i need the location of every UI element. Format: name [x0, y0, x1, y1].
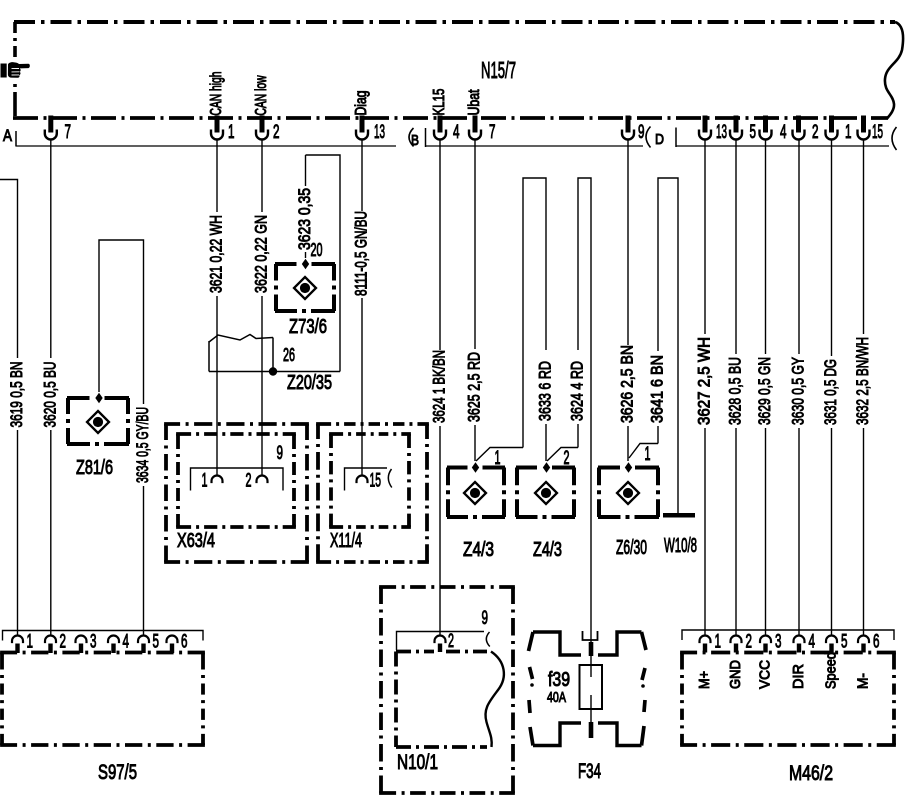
svg-text:3622 0,22 GN: 3622 0,22 GN: [252, 215, 271, 293]
svg-text:Z4/3: Z4/3: [463, 539, 494, 561]
pin 1 of S97/5: [12, 636, 23, 644]
svg-text:6: 6: [181, 632, 188, 653]
control unit N10/1 inner box top edge: [396, 650, 434, 654]
connector group A boundary line: [16, 145, 396, 147]
pin 2 cup of X63/4: [257, 476, 268, 484]
svg-text:Z81/6: Z81/6: [76, 457, 113, 479]
wire 3628 0,5 BU: [735, 140, 737, 354]
bracket paren of N10/1: [486, 632, 489, 647]
wire 3629 0,5 GN: [765, 140, 767, 354]
fuse top cup: [583, 631, 598, 640]
connector pin 15 on N15/7 (plain): [861, 116, 866, 133]
wire 3632 2,5 BN/WH: [863, 140, 865, 334]
solder joint Z4/3-2 pin diamond: [543, 462, 550, 472]
svg-text:Ubat: Ubat: [466, 89, 483, 115]
svg-text:2: 2: [448, 631, 454, 652]
svg-text:3619 0,5 BN: 3619 0,5 BN: [7, 362, 26, 428]
solder point Z81/6 symbol: [87, 411, 109, 433]
connector group D tick: [675, 128, 677, 148]
svg-text:5: 5: [153, 632, 160, 653]
svg-text:F34: F34: [578, 760, 601, 783]
solder joint Z4/3-2 symbol: [535, 482, 557, 504]
solder point Z81/6 box: [67, 396, 129, 400]
connector pin 4 on N15/7 (plain): [763, 116, 768, 133]
wire Z73/6 riser to junction: [306, 155, 341, 372]
connector group B boundary line: [426, 145, 644, 147]
svg-text:1: 1: [845, 122, 852, 143]
svg-text:7: 7: [65, 122, 72, 143]
fuse box F34 outline left zigzag: [529, 632, 534, 651]
wire loop Z6/30 pin1 to W10/8: [658, 178, 678, 513]
connector pin 4 on N15/7 (KL15): [438, 116, 443, 133]
svg-text:W10/8: W10/8: [664, 535, 697, 557]
svg-text:6: 6: [873, 632, 880, 653]
wire 3634 0,5 GY/BU: [143, 486, 145, 636]
control unit N15/7 box bottom edge: [13, 116, 888, 120]
svg-text:VCC: VCC: [756, 660, 773, 689]
wire 3623 0,35: [305, 155, 307, 186]
connector pin 7 on N15/7 (Ubat): [473, 116, 478, 133]
svg-text:13: 13: [374, 122, 385, 143]
svg-text:2: 2: [812, 122, 819, 143]
svg-text:1: 1: [27, 632, 34, 653]
svg-text:15: 15: [872, 122, 883, 143]
svg-text:X11/4: X11/4: [330, 530, 362, 552]
control unit N10/1 inner box wavy right edge: [485, 652, 503, 748]
wire 3630 0,5 GY: [798, 140, 800, 354]
svg-text:S97/5: S97/5: [98, 761, 137, 784]
pin 4 of S97/5: [108, 636, 119, 644]
junction dot node: [269, 367, 277, 375]
svg-text:Diag: Diag: [353, 91, 370, 116]
pin 2 of N10/1: [435, 636, 446, 644]
wire 3625 2,5 RD: [474, 140, 476, 349]
solder joint Z4/3-1 box: [447, 466, 505, 470]
junction to Z6/30 pin 1: [629, 444, 658, 459]
wire 3620 0,5 BU: [50, 140, 52, 358]
svg-text:DIR: DIR: [790, 664, 807, 689]
connector group D boundary line: [676, 145, 889, 147]
svg-text:3625 2,5 RD: 3625 2,5 RD: [465, 352, 484, 422]
connector X11/4 inner box: [329, 432, 411, 436]
wire 3633 6 RD: [545, 424, 547, 461]
wire loop Z81/6 to 3634: [99, 240, 144, 404]
wire loop Z4/3-2 pin2 to fuse: [578, 178, 591, 640]
switch S97/5 box: [0, 651, 205, 655]
svg-text:3632 2,5 BN/WH: 3632 2,5 BN/WH: [853, 337, 872, 425]
svg-text:3624 1 BK/BN: 3624 1 BK/BN: [430, 350, 449, 423]
pin 4 (DIR) of M46/2: [794, 636, 805, 644]
solder point Z81/6 pin diamond: [95, 393, 102, 403]
svg-text:3628 0,5 BU: 3628 0,5 BU: [726, 357, 745, 425]
wire 3619 0,5 BN: [0, 180, 18, 359]
connector pin 2 on N15/7 (CAN low): [260, 116, 265, 133]
svg-text:Z6/30: Z6/30: [616, 537, 647, 559]
svg-text:KL15: KL15: [431, 88, 448, 115]
svg-text:26: 26: [283, 345, 295, 365]
svg-text:3634 0,5 GY/BU: 3634 0,5 GY/BU: [133, 407, 152, 483]
connector X63/4 outer box: [164, 422, 309, 426]
connector pin 9 on N15/7 (plain): [626, 116, 631, 133]
pin 6 of S97/5: [167, 636, 178, 644]
svg-text:2: 2: [60, 632, 67, 653]
paren at right end of D line: [892, 127, 897, 150]
connector X11/4 outer box: [316, 422, 429, 426]
solder joint Z4/3-1 symbol: [464, 482, 486, 504]
pointer hand icon: [1, 62, 30, 78]
svg-text:4: 4: [123, 632, 130, 653]
svg-text:4: 4: [453, 122, 460, 143]
svg-text:15: 15: [370, 471, 382, 492]
svg-text:4: 4: [780, 122, 787, 143]
fuse box F34 outline bottom-left: [533, 723, 581, 746]
pin 15 cup of X11/4: [357, 476, 368, 484]
svg-text:5: 5: [841, 632, 848, 653]
connector pin 13 on N15/7 (plain): [703, 116, 708, 133]
svg-text:M46/2: M46/2: [789, 762, 833, 785]
pin 1 (M+) of M46/2: [700, 636, 711, 644]
junction to Z4/3-1 pin 1: [476, 448, 523, 462]
svg-text:3633 6 RD: 3633 6 RD: [536, 361, 555, 421]
fuse box F34 outline top-right: [598, 632, 642, 655]
shield Z20/35 left edge: [208, 341, 210, 372]
pin 2 (GND) of M46/2: [731, 636, 742, 644]
svg-text:3624 4 RD: 3624 4 RD: [568, 361, 587, 421]
wire 3631 0,5 DG: [831, 140, 833, 356]
connector pin 1 on N15/7 (CAN high): [215, 116, 220, 133]
pin 3 (VCC) of M46/2: [760, 636, 771, 644]
pin 3 of S97/5: [76, 636, 87, 644]
svg-text:9: 9: [638, 122, 645, 143]
connector pin 5 on N15/7 (plain): [734, 116, 739, 133]
svg-text:2: 2: [746, 632, 753, 653]
junction line to Z73/6 riser: [209, 371, 340, 373]
svg-text:M+: M+: [696, 671, 713, 689]
svg-text:5: 5: [750, 122, 757, 143]
ground point W10/8 bar: [663, 513, 695, 518]
fuse bottom thick stub: [589, 722, 594, 738]
svg-text:3: 3: [775, 632, 782, 653]
control unit N10/1 inner box bottom edge: [396, 745, 487, 749]
solder splice Z73/6 box: [275, 262, 335, 266]
svg-text:40A: 40A: [547, 690, 566, 706]
control unit N10/1 outer box: [379, 585, 515, 589]
svg-text:3626 2,5 BN: 3626 2,5 BN: [618, 345, 637, 423]
solder joint Z4/3-2 box: [516, 466, 575, 470]
pin 5 of S97/5: [138, 636, 149, 644]
pin 6 (M-) of M46/2: [858, 636, 869, 644]
connector bracket of S97/5: [3, 631, 204, 641]
solder joint Z6/30 box: [598, 466, 659, 470]
svg-text:Z4/3: Z4/3: [533, 539, 562, 561]
wire loop Z4/3-1 pin1: [523, 178, 546, 448]
shield Z20/35 right edge: [272, 338, 274, 372]
connector bracket of N10/1: [397, 632, 485, 651]
svg-text:B: B: [411, 132, 419, 149]
wire 3621 0,22 WH: [216, 140, 218, 212]
svg-text:3630 0,5 GY: 3630 0,5 GY: [789, 357, 808, 425]
svg-text:CAN high: CAN high: [208, 71, 225, 115]
paren after pin 9: [646, 127, 651, 148]
connector X11/4 bracket: [345, 468, 388, 491]
svg-text:3627 2,5 WH: 3627 2,5 WH: [695, 337, 714, 425]
connector pin 7 on N15/7 (plain): [48, 116, 53, 133]
svg-text:Speed: Speed: [822, 652, 839, 689]
fuse box F34 outline top-left: [533, 632, 581, 655]
control unit N10/1 inner box left edge: [394, 652, 398, 748]
svg-text:M-: M-: [854, 673, 871, 689]
svg-text:N15/7: N15/7: [481, 57, 516, 83]
svg-text:3629 0,5 GN: 3629 0,5 GN: [755, 357, 774, 425]
svg-text:1: 1: [645, 444, 651, 465]
svg-text:Z20/35: Z20/35: [287, 372, 332, 394]
connector X11/4 bracket paren: [388, 469, 391, 488]
connector pin 1 on N15/7 (plain): [829, 116, 834, 133]
svg-text:1: 1: [228, 122, 235, 143]
svg-text:4: 4: [809, 632, 816, 653]
connector group B paren: [409, 128, 414, 147]
connector X63/4 inner box: [176, 432, 296, 436]
solder splice Z73/6 pin diamond: [302, 259, 309, 269]
wire 3626 2,5 BN: [627, 140, 629, 345]
control unit N15/7 box left edge: [13, 22, 17, 60]
connector pin 13 on N15/7 (Diag): [360, 116, 365, 133]
wire 3624 1 BK/BN: [439, 140, 441, 350]
svg-text:A: A: [3, 126, 13, 145]
svg-text:2: 2: [246, 471, 252, 492]
wire 3622 0,22 GN: [261, 140, 263, 212]
junction to Z4/3-2 pin 2: [547, 448, 578, 462]
svg-text:3620 0,5 BU: 3620 0,5 BU: [40, 362, 59, 428]
solder joint Z4/3-1 pin diamond: [472, 462, 479, 472]
connector group B tick: [425, 128, 427, 147]
wire 3627 2,5 WH: [704, 140, 706, 334]
connector pin 2 on N15/7 (plain): [796, 116, 801, 133]
svg-text:CAN low: CAN low: [253, 75, 270, 115]
fuse box F34 outline right zigzag: [642, 632, 647, 650]
svg-text:D: D: [655, 131, 664, 148]
solder splice Z73/6 symbol: [294, 277, 316, 299]
svg-text:3631 0,5 DG: 3631 0,5 DG: [821, 359, 840, 425]
fuse wire through: [590, 640, 592, 677]
svg-text:N10/1: N10/1: [397, 751, 438, 774]
svg-text:9: 9: [277, 443, 284, 464]
fuse element f39 rectangle: [580, 665, 603, 709]
svg-text:3621 0,22 WH: 3621 0,22 WH: [207, 215, 226, 293]
svg-text:7: 7: [489, 122, 496, 143]
control unit N15/7 box top edge: [14, 20, 895, 24]
shield Z20/35 wavy top: [209, 335, 273, 343]
svg-text:3641 6 BN: 3641 6 BN: [648, 355, 667, 423]
svg-text:2: 2: [273, 122, 280, 143]
connector X63/4 bracket: [191, 468, 284, 491]
svg-text:1: 1: [202, 471, 208, 492]
svg-text:Z73/6: Z73/6: [289, 316, 327, 338]
fuse box F34 outline bottom-right: [598, 723, 642, 746]
svg-text:GND: GND: [727, 660, 744, 689]
pin 1 cup of X63/4: [212, 476, 223, 484]
fuse top thick stub: [589, 642, 594, 656]
solder joint Z6/30 symbol: [617, 482, 639, 504]
svg-text:20: 20: [311, 240, 323, 260]
pin 5 (Speed) of M46/2: [826, 636, 837, 644]
svg-text:9: 9: [482, 608, 489, 629]
solder joint Z6/30 pin diamond: [625, 462, 632, 472]
svg-text:13: 13: [716, 122, 727, 143]
wire 8111-0,5 GN/BU: [361, 140, 363, 211]
connector bracket of M46/2: [682, 630, 894, 640]
svg-text:3: 3: [90, 632, 97, 653]
svg-text:X63/4: X63/4: [177, 530, 215, 552]
svg-text:f39: f39: [548, 669, 570, 691]
pin 2 of S97/5: [45, 636, 56, 644]
svg-text:8111-0,5 GN/BU: 8111-0,5 GN/BU: [352, 211, 371, 296]
control unit N15/7 right edge break squiggle: [885, 22, 903, 119]
motor M46/2 box: [680, 651, 896, 655]
svg-text:1: 1: [715, 632, 722, 653]
